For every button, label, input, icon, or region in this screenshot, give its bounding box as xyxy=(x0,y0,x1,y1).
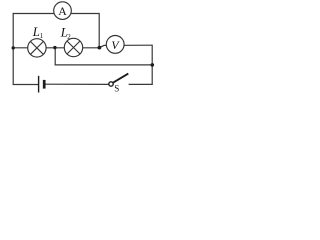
lamp L1 circle xyxy=(28,39,46,57)
switch S lever xyxy=(113,74,128,83)
junction node between L1 and L2 xyxy=(53,46,56,49)
lamp L2 circle xyxy=(64,38,82,56)
wire parallel branch vertical xyxy=(54,48,56,65)
svg-text:2: 2 xyxy=(67,33,71,41)
battery long plate xyxy=(38,76,40,93)
lamp L2 cross xyxy=(67,41,80,54)
svg-text:A: A xyxy=(58,4,67,18)
junction node at left rail / lamp row xyxy=(12,46,15,49)
wire left rail xyxy=(12,13,14,85)
junction node at right rail / branch xyxy=(151,63,155,67)
wire bottom right segment xyxy=(129,83,153,85)
wire top branch horizontal xyxy=(13,13,99,15)
voltmeter V circle xyxy=(106,36,124,54)
ammeter A circle xyxy=(54,2,72,20)
wire bottom left segment xyxy=(13,84,38,86)
lamp L1 cross xyxy=(31,42,44,55)
wire lamp row xyxy=(13,47,100,49)
svg-text:S: S xyxy=(114,83,119,93)
wire right rail xyxy=(151,45,153,85)
battery short plate xyxy=(43,80,46,89)
wire bottom middle segment xyxy=(45,83,108,85)
svg-text:1: 1 xyxy=(40,32,44,40)
junction node at ammeter drop / lamp row xyxy=(98,46,102,50)
wire voltmeter row xyxy=(100,45,153,47)
wire right drop from ammeter branch xyxy=(98,13,100,48)
switch S pivot circle xyxy=(109,82,113,86)
wire parallel branch horizontal xyxy=(55,64,153,66)
svg-text:L: L xyxy=(32,25,40,39)
